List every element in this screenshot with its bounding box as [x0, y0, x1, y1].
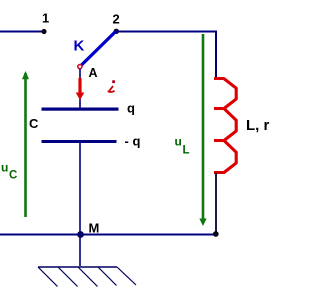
label C	[29, 116, 39, 131]
label - q (bottom plate charge)	[125, 134, 141, 149]
label q (top plate charge)	[127, 101, 135, 116]
label 2	[113, 12, 120, 27]
label M	[89, 221, 100, 236]
label K	[74, 38, 85, 55]
wire: left feed to contact 1	[0, 31, 44, 33]
svg-text:C: C	[9, 170, 17, 182]
switch pivot contact (open circle)	[78, 65, 82, 69]
voltage arrow u_C (green, upward)	[22, 71, 29, 217]
node M (junction dot)	[77, 231, 84, 238]
capacitor C bottom plate	[42, 140, 117, 143]
wire: right rail upper (corner down to inductor)	[215, 31, 217, 78]
svg-text:L: L	[183, 145, 190, 157]
wire: top rail from node 2 to right corner	[116, 31, 217, 33]
svg-text:u: u	[175, 135, 182, 149]
svg-text:2: 2	[113, 12, 120, 27]
svg-text:K: K	[74, 38, 85, 55]
wire: pivot down to capacitor top plate	[79, 69, 81, 109]
current arrow (red, downward)	[76, 78, 85, 100]
label A	[89, 66, 98, 80]
voltage arrow u_L (green, downward)	[199, 34, 206, 226]
label i (current, red italic)	[108, 80, 115, 92]
switch K blade	[81, 31, 116, 66]
capacitor C top plate	[42, 108, 119, 111]
label 1	[42, 11, 49, 26]
node 1 (contact dot)	[41, 29, 46, 34]
label u_L	[175, 135, 190, 157]
inductor L (red coil, 3 loops)	[214, 79, 236, 173]
ground symbol	[38, 267, 136, 287]
svg-text:L, r: L, r	[246, 117, 269, 134]
svg-text:u: u	[1, 161, 8, 175]
wire: right rail lower (inductor to bottom rail)	[215, 173, 217, 234]
svg-text:- q: - q	[125, 134, 141, 149]
wire: bottom plate down to node M and ground	[79, 143, 81, 266]
node: bottom-right junction dot	[213, 231, 219, 237]
label L, r	[246, 117, 269, 134]
svg-text:1: 1	[42, 11, 49, 26]
svg-text:A: A	[89, 66, 98, 80]
label u_C	[1, 161, 17, 182]
svg-text:C: C	[29, 116, 39, 131]
svg-text:M: M	[89, 221, 100, 236]
svg-text:q: q	[127, 101, 135, 116]
wire: bottom rail	[0, 234, 216, 236]
node 2 (contact dot)	[114, 29, 119, 34]
